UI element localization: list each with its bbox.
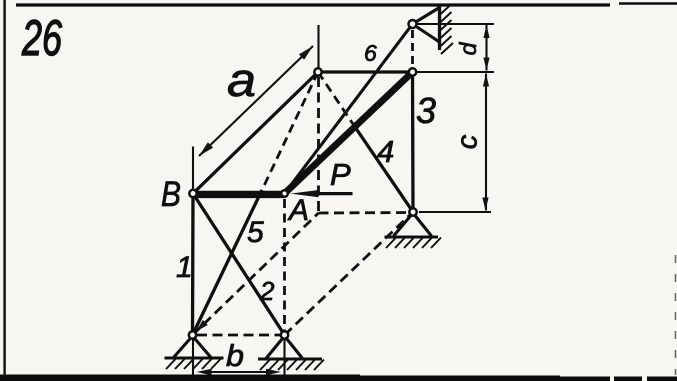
node right support — [409, 208, 416, 215]
svg-text:b: b — [226, 338, 244, 373]
svg-text:a: a — [227, 53, 256, 106]
rod 5 hidden part (dashed) — [262, 72, 318, 190]
node front-bottom-right — [281, 331, 288, 338]
force P arrow — [291, 190, 353, 197]
dashed depth edge br to right support — [285, 212, 414, 335]
svg-text:A: A — [287, 194, 309, 227]
thick bar B-A — [193, 191, 285, 198]
dashed rear bottom edge — [319, 211, 414, 214]
support at front-bottom-right — [258, 336, 324, 370]
thick bar A to rear-top-right — [285, 72, 413, 194]
rod 6: A to wall anchor — [285, 24, 413, 194]
rear top edge TL-TR — [318, 70, 413, 73]
extension line at y=72 right of TR — [417, 71, 494, 73]
rod 4 visible part — [355, 127, 413, 212]
rod 3: vertical right side — [411, 72, 415, 212]
node front-bottom-left — [189, 331, 196, 338]
svg-text:2: 2 — [259, 276, 275, 306]
extension line at y=212 right of support — [419, 211, 491, 213]
rod 5 visible part — [193, 190, 263, 335]
support at right node — [385, 213, 442, 248]
wire: extension line above rear top-left node — [317, 25, 319, 72]
dashed vertical A to front-bottom-right — [283, 199, 286, 331]
svg-text:P: P — [330, 157, 351, 192]
dashed vertical anchor to TR — [411, 30, 414, 67]
dashed bottom front edge bl-br — [197, 334, 280, 337]
node rear-top-left — [314, 68, 321, 75]
svg-text:3: 3 — [416, 90, 436, 131]
svg-text:c: c — [452, 134, 484, 149]
svg-text:5: 5 — [247, 216, 264, 249]
wire: extension line above node B — [192, 147, 194, 194]
page bottom border — [0, 375, 360, 381]
node A — [281, 190, 288, 197]
rod 4 hidden part (dashed) — [318, 72, 355, 127]
svg-text:4: 4 — [377, 134, 394, 169]
right border (faint dashes) — [675, 255, 677, 375]
dimension d vertical — [485, 25, 487, 71]
dimension a line with arrows — [199, 46, 313, 156]
node wall anchor — [409, 20, 417, 28]
node B — [189, 190, 196, 197]
member B to rear-top-left (depth edge, solid) — [193, 72, 318, 194]
arrowhead at bl on depth edge — [196, 320, 208, 332]
extension line at y=24 from anchor — [417, 23, 494, 25]
wall support at anchor — [413, 4, 454, 54]
svg-text:26: 26 — [21, 10, 62, 66]
dimension c vertical — [485, 74, 487, 211]
svg-text:6: 6 — [364, 40, 377, 66]
dimension b: extension verticals and arrows — [192, 339, 194, 376]
svg-text:d: d — [455, 41, 481, 55]
svg-text:1: 1 — [176, 251, 193, 284]
dashed depth edge bl to rear-bottom-left — [193, 213, 319, 335]
dashed vertical TL to rear-bottom-left — [317, 77, 320, 213]
support at front-bottom-left — [165, 336, 224, 369]
svg-text:B: B — [161, 175, 181, 214]
rod 1: vertical under B — [191, 194, 195, 336]
node rear-top-right — [409, 68, 416, 75]
page left border — [3, 0, 5, 376]
page top border — [16, 3, 610, 6]
rod 2: B to front-bottom-right — [193, 194, 285, 336]
